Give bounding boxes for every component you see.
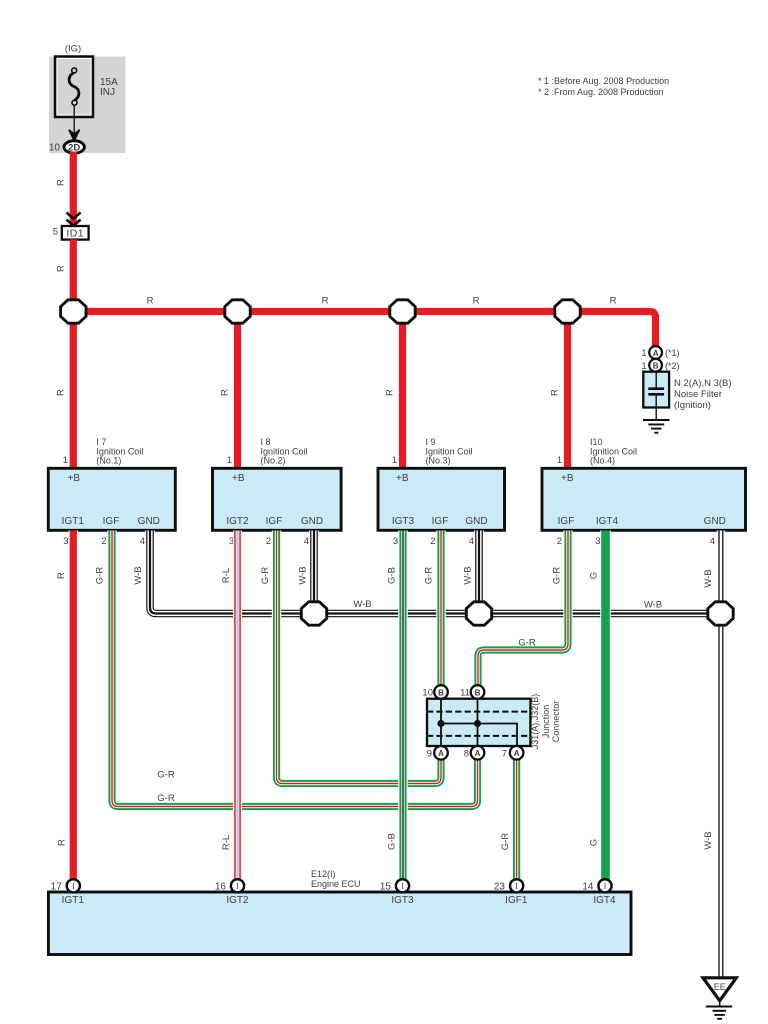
svg-text:15: 15: [380, 881, 392, 892]
svg-text:2D: 2D: [68, 142, 80, 153]
svg-text:IGT3: IGT3: [392, 516, 415, 527]
junction splice W-B 2: [301, 602, 326, 625]
svg-text:GND: GND: [138, 516, 160, 527]
svg-text:G-R: G-R: [424, 567, 435, 585]
junction pin 10 B: [422, 685, 447, 699]
svg-text:10: 10: [422, 688, 433, 699]
noise filter N2/N3 capacitor: [643, 372, 669, 420]
label I10 header: [590, 437, 637, 466]
junction connector internal dashed lines: [427, 712, 530, 736]
svg-text:3: 3: [595, 536, 600, 547]
svg-text:(*1): (*1): [665, 348, 680, 358]
svg-text:R: R: [56, 389, 67, 396]
svg-text:23: 23: [494, 881, 506, 892]
junction splice 1: [61, 300, 86, 323]
svg-text:IGT1: IGT1: [62, 895, 85, 906]
svg-text:9: 9: [427, 748, 432, 759]
wire W-B ground bus from coil1 GND: [150, 531, 721, 614]
svg-text:+B: +B: [561, 473, 574, 484]
wire fuse to connector arrow: [69, 105, 79, 141]
svg-text:W-B: W-B: [644, 600, 662, 611]
svg-text:R: R: [57, 839, 68, 846]
svg-text:G-B: G-B: [387, 833, 398, 850]
label noise filter: [674, 378, 732, 411]
svg-text:4: 4: [710, 536, 715, 547]
svg-text:2: 2: [266, 536, 271, 547]
junction connector internal wires: [441, 699, 517, 746]
wire R-L coil2 IGT2 to ECU: [233, 531, 242, 881]
svg-text:R: R: [56, 179, 67, 186]
noise filter pin A: [641, 346, 679, 359]
svg-text:2: 2: [557, 536, 562, 547]
svg-text:G-R: G-R: [95, 567, 106, 585]
ignition coil I9 box: [378, 468, 505, 530]
svg-text:G-R: G-R: [157, 770, 175, 781]
svg-text:R: R: [322, 296, 329, 307]
svg-text:14: 14: [582, 881, 594, 892]
wire W-B coil4 GND: [719, 531, 723, 614]
svg-text:1: 1: [227, 455, 232, 466]
svg-text:G-R: G-R: [518, 638, 536, 649]
svg-text:E12(I): E12(I): [311, 869, 336, 879]
svg-text:INJ: INJ: [100, 87, 115, 98]
svg-text:W-B: W-B: [703, 569, 714, 587]
wire G coil4 IGT4 to ECU: [600, 531, 611, 881]
svg-text:IGT4: IGT4: [596, 516, 619, 527]
svg-text:(IG): (IG): [65, 44, 81, 55]
ECU pin 17 IGT1: [51, 879, 85, 906]
ignition coil I8 box: [213, 468, 342, 530]
svg-text:2: 2: [101, 536, 106, 547]
wire W-B coil3 GND: [474, 531, 484, 614]
svg-text:IGT3: IGT3: [391, 895, 414, 906]
label J31(A),J32(B) Junction Connector: [530, 694, 561, 750]
ground EE triangle: [703, 978, 736, 1001]
svg-text:A: A: [475, 749, 481, 758]
svg-text:I: I: [401, 881, 403, 891]
svg-text:R: R: [147, 296, 154, 307]
svg-text:Noise Filter: Noise Filter: [674, 389, 722, 400]
svg-text:IGT2: IGT2: [226, 516, 249, 527]
svg-text:Engine ECU: Engine ECU: [311, 879, 361, 889]
svg-text:IGF: IGF: [432, 516, 449, 527]
connector ID1 pin 5: [53, 226, 89, 240]
svg-text:(No.3): (No.3): [426, 456, 451, 466]
junction connector J31/J32 box: [427, 699, 530, 746]
svg-text:(No.1): (No.1): [96, 456, 121, 466]
junction splice 4: [555, 300, 580, 323]
ground below noise filter: [643, 420, 670, 433]
labels coil I10 terminals: [558, 516, 726, 527]
junction splice 3: [390, 300, 415, 323]
svg-text:1: 1: [392, 455, 397, 466]
junction splice W-B 4: [708, 602, 733, 625]
svg-text:11: 11: [460, 688, 470, 699]
svg-text:IGT4: IGT4: [593, 895, 616, 906]
svg-text:IGF1: IGF1: [505, 895, 528, 906]
wire R from 2D to ID1: [70, 152, 77, 226]
pins 3 2 4 coil I7: [63, 536, 145, 547]
svg-text:G: G: [589, 839, 600, 846]
svg-text:R-L: R-L: [221, 835, 232, 850]
svg-text:A: A: [653, 349, 659, 358]
svg-text:GND: GND: [704, 516, 726, 527]
svg-text:B: B: [438, 688, 444, 697]
ECU pin 14 IGT4: [582, 879, 616, 906]
svg-text:+B: +B: [68, 473, 81, 484]
junction pin 8 A: [464, 746, 485, 760]
labels coil I8 terminals: [226, 516, 323, 527]
junction pin 11 B: [460, 685, 484, 699]
wire G-R coil1 IGF to junction pin 8: [112, 531, 478, 807]
svg-text:G-B: G-B: [387, 567, 398, 584]
junction splice 2: [225, 300, 250, 323]
label I8 header: [261, 437, 308, 466]
wire W-B to EE ground: [719, 614, 723, 978]
svg-text:* 1 :Before Aug. 2008 Producti: * 1 :Before Aug. 2008 Production: [538, 76, 669, 86]
svg-text:2: 2: [430, 536, 435, 547]
junction pin 7 A: [502, 746, 524, 760]
svg-text:B: B: [475, 688, 481, 697]
svg-text:I: I: [604, 881, 606, 891]
svg-text:I: I: [236, 881, 238, 891]
wire R drop to coil 3: [399, 312, 406, 470]
svg-text:GND: GND: [301, 516, 323, 527]
svg-text:1: 1: [641, 348, 646, 358]
svg-text:IGT1: IGT1: [62, 516, 85, 527]
label E12(I) Engine ECU: [311, 869, 361, 889]
svg-text:R: R: [550, 389, 561, 396]
svg-text:(*2): (*2): [665, 361, 680, 371]
labels coil I9 terminals: [392, 516, 488, 527]
svg-text:W-B: W-B: [703, 831, 714, 849]
svg-text:1: 1: [557, 455, 562, 466]
svg-text:(No.4): (No.4): [590, 456, 615, 466]
svg-text:R-L: R-L: [221, 568, 232, 583]
svg-text:EE: EE: [714, 982, 726, 992]
svg-text:R: R: [473, 296, 480, 307]
svg-text:IGF: IGF: [103, 516, 120, 527]
svg-text:R: R: [610, 296, 617, 307]
svg-text:R: R: [220, 389, 231, 396]
svg-text:IGF: IGF: [266, 516, 283, 527]
wire R drop to coil 2: [234, 312, 241, 470]
svg-text:G-R: G-R: [552, 567, 563, 585]
svg-text:4: 4: [469, 536, 474, 547]
shaded area (ignition fuse block): [49, 57, 126, 154]
wire G-R coil4 IGF to junction pin 11: [478, 531, 568, 687]
ignition coil I10 box: [542, 468, 746, 530]
label I7 header: [96, 437, 143, 466]
pins 3 2 4 coil I9: [393, 536, 474, 547]
svg-text:G-R: G-R: [157, 793, 175, 804]
svg-text:G-R: G-R: [500, 833, 511, 851]
wire R drop to coil 4: [564, 312, 571, 470]
junction node dot 2: [474, 720, 481, 727]
svg-text:4: 4: [140, 536, 145, 547]
svg-text:R: R: [56, 572, 67, 579]
svg-text:R: R: [56, 265, 67, 272]
connector 2D pin 10: [49, 141, 85, 154]
wire R coil1 IGT1 to ECU: [69, 531, 79, 881]
svg-text:A: A: [438, 749, 444, 758]
wire R from ID1 to bus: [70, 240, 77, 312]
labels coil I7 terminals: [62, 516, 160, 527]
wire W-B coil2 GND: [309, 531, 319, 614]
wire G-R coil2 IGF to junction pin 9: [277, 531, 442, 784]
wire G-R junction pin 7 to ECU IGF1: [512, 760, 522, 880]
svg-text:3: 3: [393, 536, 398, 547]
junction pin 9 A: [427, 746, 448, 760]
svg-text:+B: +B: [232, 473, 245, 484]
junction node dot 1: [437, 720, 444, 727]
svg-text:17: 17: [51, 881, 63, 892]
svg-text:4: 4: [304, 536, 309, 547]
svg-text:* 2 :From Aug. 2008 Production: * 2 :From Aug. 2008 Production: [538, 87, 664, 97]
svg-text:(Ignition): (Ignition): [674, 400, 711, 411]
junction splice W-B 3: [466, 602, 491, 625]
svg-text:W-B: W-B: [463, 566, 474, 584]
svg-text:W-B: W-B: [298, 566, 309, 584]
ground EE hatch: [706, 1001, 732, 1019]
svg-text:Junction: Junction: [541, 705, 551, 739]
svg-text:10: 10: [49, 142, 61, 153]
svg-text:B: B: [653, 362, 659, 371]
svg-text:N 2(A),N 3(B): N 2(A),N 3(B): [674, 378, 732, 389]
wire R main bus to noise filter: [73, 312, 655, 348]
svg-text:J31(A),J32(B): J31(A),J32(B): [530, 694, 540, 750]
svg-text:5: 5: [53, 227, 58, 238]
svg-text:IGF: IGF: [558, 516, 575, 527]
svg-text:W-B: W-B: [133, 566, 144, 584]
splice double chevron: [66, 213, 80, 226]
svg-text:1: 1: [63, 455, 68, 466]
noise filter pin B: [641, 359, 679, 372]
wire R drop to coil 1: [70, 312, 77, 470]
svg-text:ID1: ID1: [66, 228, 84, 240]
ECU pin 23 IGF1: [494, 879, 528, 906]
wire G-R coil3 IGF to junction pin 10: [436, 531, 446, 687]
svg-text:W-B: W-B: [353, 599, 371, 610]
svg-text:3: 3: [63, 536, 68, 547]
svg-text:G: G: [589, 572, 600, 579]
pins 3 2 4 coil I8: [229, 536, 309, 547]
svg-text:7: 7: [502, 748, 507, 759]
svg-text:I: I: [72, 881, 74, 891]
label I9 header: [426, 437, 473, 466]
ECU pin 16 IGT2: [215, 879, 249, 906]
svg-text:IGT2: IGT2: [226, 895, 249, 906]
svg-text:Connector: Connector: [551, 701, 561, 743]
svg-text:16: 16: [215, 881, 227, 892]
svg-text:A: A: [514, 749, 520, 758]
svg-text:GND: GND: [465, 516, 487, 527]
ECU pin 15 IGT3: [380, 879, 414, 906]
svg-text:+B: +B: [396, 473, 409, 484]
svg-text:I: I: [515, 881, 517, 891]
pins 2 3 4 coil I10: [557, 536, 715, 547]
svg-text:(No.2): (No.2): [261, 456, 286, 466]
fuse 15A INJ: [55, 57, 93, 118]
svg-text:G-R: G-R: [260, 567, 271, 585]
ignition coil I7 box: [48, 468, 175, 530]
engine ECU box E12: [48, 892, 631, 955]
wire G-B coil3 IGT3 to ECU: [398, 531, 408, 881]
svg-text:8: 8: [464, 748, 469, 759]
svg-text:R: R: [385, 389, 396, 396]
svg-text:1: 1: [641, 361, 646, 371]
